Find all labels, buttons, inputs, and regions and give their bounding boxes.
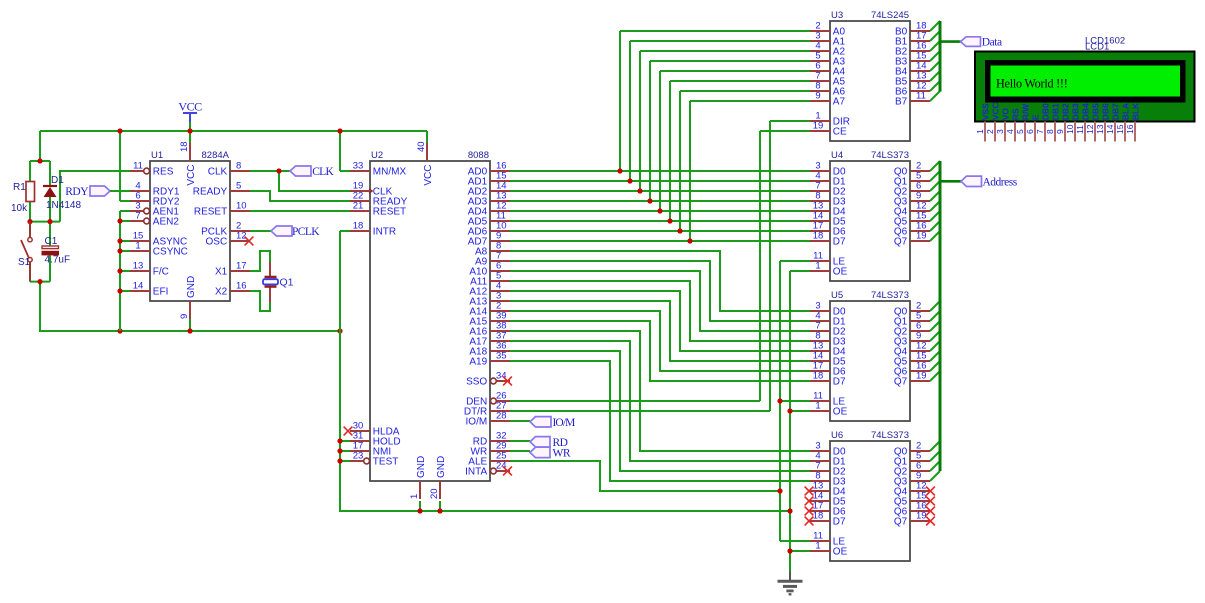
svg-text:8: 8: [1045, 129, 1055, 134]
terminal label WR: [530, 447, 571, 459]
wire MN/MX to VCC rail: [340, 170, 350, 172]
svg-text:34: 34: [496, 371, 507, 382]
svg-text:10k: 10k: [11, 203, 28, 214]
svg-text:4: 4: [1005, 129, 1015, 134]
svg-text:VCC: VCC: [186, 165, 197, 186]
svg-text:OSC: OSC: [206, 237, 228, 248]
svg-text:14: 14: [1105, 124, 1115, 134]
U2 pin 38 A16: [469, 321, 510, 338]
svg-text:A7: A7: [833, 97, 846, 108]
junction chain at AEN2: [117, 218, 122, 223]
U1 pin 14 EFI: [130, 281, 168, 298]
no-connect X on U6 D5: [805, 497, 814, 506]
svg-text:DB3: DB3: [1070, 103, 1080, 120]
svg-text:CE: CE: [833, 127, 847, 138]
svg-text:RESET: RESET: [194, 207, 227, 218]
svg-text:GND: GND: [436, 456, 447, 478]
svg-text:D7: D7: [833, 517, 846, 528]
net CLK wire (U1 CLK to label and U2 CLK): [250, 171, 350, 191]
U1 pin 9 GND: [179, 276, 197, 319]
svg-text:Hello World !!!: Hello World !!!: [996, 77, 1068, 91]
svg-text:1: 1: [135, 241, 140, 252]
net A18 wire (U2 to U6 D2): [510, 351, 810, 471]
IC U4 74LS373 body: [830, 150, 910, 281]
svg-text:13: 13: [133, 261, 144, 272]
junction OE chain at U5 OE: [787, 408, 792, 413]
U2 pin 14 AD2: [468, 181, 510, 198]
U6 pin 12 Q4: [894, 481, 930, 498]
U2 pin 8 A8: [475, 241, 510, 258]
svg-text:DB7: DB7: [1110, 103, 1120, 120]
LCD1 pin 6 E: [1025, 114, 1040, 141]
svg-text:20: 20: [429, 488, 440, 499]
U2 pin 18 INTR: [350, 221, 396, 238]
junction AD2: [637, 188, 642, 193]
svg-text:U1: U1: [151, 150, 163, 161]
svg-text:BLA: BLA: [1120, 103, 1130, 120]
svg-text:CSYNC: CSYNC: [153, 247, 188, 258]
svg-text:19: 19: [916, 231, 927, 242]
svg-text:A19: A19: [469, 357, 487, 368]
U2 pin 33 MN/MX: [350, 161, 406, 178]
svg-text:19: 19: [916, 371, 927, 382]
U6 pin 13 D4: [810, 481, 846, 498]
junction AD6: [677, 228, 682, 233]
U3 pin 13 B5: [895, 71, 930, 88]
net PCLK wire: [250, 230, 271, 232]
U6 pin 2 Q0: [894, 441, 930, 458]
LCD1 pin 10 DB3: [1065, 103, 1080, 141]
net ALE wire to latch LE chain: [510, 261, 810, 541]
no-connect X on U6 Q6: [926, 507, 935, 516]
svg-text:CLK: CLK: [312, 166, 334, 178]
svg-text:23: 23: [353, 451, 364, 462]
U5 pin 15 Q5: [894, 351, 930, 368]
U2 pin 35 A19: [469, 351, 510, 368]
svg-text:VO: VO: [1000, 108, 1010, 121]
svg-text:F/C: F/C: [153, 267, 169, 278]
terminal label PCLK: [271, 226, 320, 238]
no-connect X on U6 D4: [805, 487, 814, 496]
net WR wire: [510, 450, 530, 452]
U4 pin 5 Q1: [894, 171, 930, 188]
bus Data (U3 B outputs): [930, 21, 961, 101]
U1 pin 10 RESET: [194, 201, 250, 218]
net AD0 wire (U2 to U3/U4): [510, 31, 810, 171]
IC U3 74LS245 body: [830, 10, 910, 141]
svg-text:11: 11: [1075, 125, 1085, 134]
U4 pin 9 Q3: [894, 191, 930, 208]
svg-text:74LS373: 74LS373: [871, 290, 909, 301]
svg-text:9: 9: [179, 314, 190, 319]
junction VCC rail at U1 VCC: [187, 128, 192, 133]
svg-text:PCLK: PCLK: [292, 226, 320, 238]
no-connect X on U6 D7: [805, 517, 814, 526]
U3 pin 19 CE: [810, 121, 847, 138]
LCD1 pin 16 BLK: [1125, 102, 1140, 142]
U5 pin 18 D7: [810, 371, 846, 388]
U4 pin 1 OE: [810, 261, 848, 278]
junction RES at D1 bottom: [47, 219, 52, 224]
junction AD3: [647, 198, 652, 203]
svg-text:RES: RES: [153, 167, 174, 178]
no-connect X on U6 Q7: [926, 517, 935, 526]
U6 pin 3 D0: [810, 441, 846, 458]
U1 pin 16 X2: [215, 281, 250, 298]
U2 pin 21 RESET: [350, 201, 406, 218]
junction chain at NMI: [337, 448, 342, 453]
svg-text:Address: Address: [983, 177, 1018, 189]
junction R1/D1 top: [37, 158, 42, 163]
svg-text:4.7uF: 4.7uF: [45, 255, 71, 266]
svg-text:U5: U5: [831, 290, 843, 301]
svg-text:7: 7: [135, 211, 140, 222]
junction AD7: [687, 238, 692, 243]
U5 pin 19 Q7: [894, 371, 930, 388]
junction chain at CSYNC: [117, 248, 122, 253]
resistor R1: [11, 182, 35, 215]
svg-text:74LS373: 74LS373: [871, 430, 909, 441]
svg-text:19: 19: [916, 511, 927, 522]
U3 pin 6 A4: [810, 61, 845, 78]
svg-text:INTA: INTA: [465, 467, 487, 478]
svg-text:AEN2: AEN2: [153, 217, 180, 228]
U1 pin 5 READY: [193, 181, 250, 198]
U1 pin 4 RDY1: [130, 181, 180, 198]
svg-text:17: 17: [236, 261, 247, 272]
U5 pin 13 D4: [810, 341, 846, 358]
svg-text:GND: GND: [416, 456, 427, 478]
LCD1 pin 8 DB1: [1045, 103, 1060, 141]
svg-text:GND: GND: [186, 276, 197, 298]
svg-text:IO/M: IO/M: [466, 417, 488, 428]
U6 pin 18 D7: [810, 511, 846, 528]
svg-text:74LS245: 74LS245: [871, 10, 909, 21]
U3 pin 5 A3: [810, 51, 845, 68]
svg-text:8284A: 8284A: [202, 150, 230, 161]
LCD1 pin 14 DB7: [1105, 103, 1120, 141]
svg-text:EFI: EFI: [153, 287, 169, 298]
wire AEN1/AEN2/ASYNC/CSYNC/F-C/EFI chain: [120, 211, 130, 331]
U3 pin 18 B0: [895, 21, 930, 38]
svg-text:11: 11: [916, 91, 926, 102]
LCD1 pin 2 VCC: [985, 102, 1000, 141]
U3 pin 11 B7: [895, 91, 930, 108]
svg-text:OE: OE: [833, 547, 848, 558]
svg-text:X2: X2: [215, 287, 228, 298]
terminal label IO/M: [530, 417, 575, 429]
U5 pin 17 D6: [810, 361, 846, 378]
svg-text:READY: READY: [193, 187, 228, 198]
svg-text:R/W: R/W: [1020, 103, 1030, 121]
U2 pin 37 A17: [469, 331, 510, 348]
U5 pin 14 D5: [810, 351, 846, 368]
no-connect X on U2 HLDA: [344, 427, 353, 436]
U1 pin 11 RES: [130, 161, 174, 178]
U5 pin 12 Q4: [894, 341, 930, 358]
svg-text:40: 40: [416, 141, 427, 152]
net OE chain wire to ground: [790, 271, 810, 572]
svg-text:S1: S1: [18, 257, 31, 268]
svg-text:OE: OE: [833, 407, 848, 418]
U3 pin 15 B3: [895, 51, 930, 68]
svg-text:9: 9: [815, 91, 820, 102]
crystal Q1: [263, 277, 294, 289]
svg-text:Q7: Q7: [894, 237, 908, 248]
U1 pin 3 AEN1: [130, 201, 179, 218]
svg-text:DB4: DB4: [1080, 103, 1090, 120]
junction AD0: [617, 168, 622, 173]
U5 pin 16 Q6: [894, 361, 930, 378]
U1 pin 17 X1: [215, 261, 250, 278]
U5 pin 3 D0: [810, 301, 846, 318]
U3 pin 12 B6: [895, 81, 930, 98]
U4 pin 3 D0: [810, 161, 846, 178]
svg-text:U6: U6: [831, 430, 843, 441]
junction RES at R1 bottom: [27, 219, 32, 224]
capacitor C1 4.7uF: [42, 236, 70, 266]
U2 pin 13 AD3: [468, 191, 510, 208]
U2 pin 36 A18: [469, 341, 510, 358]
svg-text:1N4148: 1N4148: [46, 200, 81, 211]
net AD2 wire (U2 to U3/U4): [510, 51, 810, 191]
U3 pin 8 A6: [810, 81, 845, 98]
svg-text:33: 33: [353, 161, 364, 172]
svg-text:18: 18: [353, 221, 364, 232]
U6 pin 6 Q2: [894, 461, 930, 478]
U2 pin 24 INTA: [465, 461, 510, 478]
junction GND rail at U1 GND: [187, 328, 192, 333]
IC U6 74LS373 body: [830, 430, 910, 561]
U4 pin 12 Q4: [894, 201, 930, 218]
U1 pin 12 OSC: [206, 231, 250, 248]
svg-text:Q1: Q1: [280, 277, 294, 289]
junction chain at TEST: [337, 458, 342, 463]
svg-text:U2: U2: [371, 150, 383, 161]
U2 pin 22 READY: [350, 191, 408, 208]
junction VCC rail at MN/MX riser: [337, 128, 342, 133]
svg-text:6: 6: [1025, 129, 1035, 134]
U6 pin 17 D6: [810, 501, 846, 518]
svg-text:D7: D7: [833, 377, 846, 388]
U5 pin 7 D2: [810, 321, 846, 338]
U5 pin 4 D1: [810, 311, 846, 328]
net AD5 wire (U2 to U3/U4): [510, 81, 810, 221]
U2 pin 16 AD0: [468, 161, 510, 178]
svg-text:Data: Data: [982, 37, 1002, 49]
terminal label RDY: [65, 186, 110, 198]
LCD1 pin 1 VSS: [975, 103, 990, 142]
U2 pin 19 CLK: [350, 181, 393, 198]
U3 pin 16 B2: [895, 41, 930, 58]
net AD3 wire (U2 to U3/U4): [510, 61, 810, 201]
U1 pin 18 VCC: [179, 141, 197, 185]
U2 pin 29 WR: [471, 441, 510, 458]
no-connect X on U6 Q4: [926, 487, 935, 496]
svg-text:DB5: DB5: [1090, 103, 1100, 120]
svg-text:MN/MX: MN/MX: [373, 167, 407, 178]
net A16 wire (U2 to U6 D0): [510, 331, 810, 451]
LCD1 pin 4 RS: [1005, 108, 1020, 141]
U2 pin 9 AD7: [468, 231, 510, 248]
U2 pin 30 HLDA: [350, 421, 400, 438]
U5 pin 11 LE: [810, 391, 845, 408]
svg-text:RDY: RDY: [65, 186, 89, 198]
power symbol VCC: [178, 100, 202, 123]
svg-text:21: 21: [353, 201, 364, 212]
U3 pin 14 B4: [895, 61, 930, 78]
U2 pin 12 AD4: [468, 201, 510, 218]
junction CLK: [276, 168, 281, 173]
LCD1 LCD1602 module: [975, 36, 1195, 122]
svg-text:OE: OE: [833, 267, 848, 278]
U2 pin 20 GND: [429, 456, 447, 499]
terminal label Address: [961, 176, 1018, 188]
U5 pin 5 Q1: [894, 311, 930, 328]
U1 pin 13 F/C: [130, 261, 169, 278]
svg-text:DB0: DB0: [1040, 103, 1050, 120]
svg-text:B7: B7: [895, 97, 908, 108]
net A19 wire (U2 to U6 D3): [510, 361, 810, 481]
svg-text:18: 18: [813, 511, 824, 522]
junction chain at HOLD: [337, 438, 342, 443]
U4 pin 11 LE: [810, 251, 845, 268]
junction OE chain at GND rail: [787, 508, 792, 513]
net A13 wire (U2 to U5 D5): [510, 301, 810, 361]
junction chain at ASYNC: [117, 238, 122, 243]
net X1 wire to crystal: [250, 251, 270, 276]
svg-text:5: 5: [236, 181, 241, 192]
junction LE chain at U5 LE: [777, 398, 782, 403]
svg-text:1: 1: [975, 129, 985, 134]
LCD1 pin 5 R/W: [1015, 103, 1030, 142]
junction OE chain at U6 OE: [787, 548, 792, 553]
junction GND rail at U2 GND1: [417, 508, 422, 513]
net AD1 wire (U2 to U3/U4): [510, 41, 810, 181]
LCD1 pin 15 BLA: [1115, 103, 1130, 142]
net A12 wire (U2 to U5 D4): [510, 291, 810, 351]
svg-text:Q7: Q7: [894, 517, 908, 528]
svg-text:R1: R1: [13, 182, 26, 193]
svg-text:D7: D7: [833, 237, 846, 248]
svg-text:12: 12: [236, 231, 247, 242]
U1 pin 7 AEN2: [130, 211, 179, 228]
svg-text:SSO: SSO: [466, 377, 487, 388]
net A9 wire (U2 to U5 D1): [510, 261, 810, 321]
junction AD5: [667, 218, 672, 223]
junction chain at EFI: [117, 288, 122, 293]
U3 pin 17 B1: [895, 31, 930, 48]
svg-text:U4: U4: [831, 150, 843, 161]
wire R1/D1 tops to VCC rail: [30, 161, 50, 186]
ground symbol: [778, 572, 803, 595]
U5 pin 9 Q3: [894, 331, 930, 348]
U6 pin 7 D2: [810, 461, 846, 478]
svg-text:RS: RS: [1010, 108, 1020, 120]
svg-text:18: 18: [813, 371, 824, 382]
U4 pin 16 Q6: [894, 221, 930, 238]
junction GND rail at INTR riser: [337, 328, 342, 333]
U2 pin 32 RD: [473, 431, 510, 448]
LCD1 pin 13 DB6: [1095, 103, 1110, 141]
U2 pin 17 NMI: [350, 441, 391, 458]
svg-text:35: 35: [496, 351, 507, 362]
net VCC top rail wire: [40, 122, 427, 201]
U2 pin 31 HOLD: [350, 431, 401, 448]
U1 pin 6 RDY2: [130, 191, 180, 208]
svg-text:X1: X1: [215, 267, 228, 278]
U2 pin 39 A15: [469, 311, 510, 328]
terminal label RD: [530, 437, 568, 449]
U2 pin 34 SSO: [466, 371, 510, 388]
junction VCC rail at RDY2 riser: [117, 128, 122, 133]
svg-text:16: 16: [1125, 124, 1135, 134]
svg-text:BLK: BLK: [1130, 102, 1140, 120]
U3 pin 1 DIR: [810, 111, 850, 128]
U3 pin 3 A1: [810, 31, 845, 48]
svg-text:18: 18: [813, 231, 824, 242]
svg-text:DB6: DB6: [1100, 103, 1110, 120]
svg-text:DB1: DB1: [1050, 103, 1060, 120]
wire RDY2 to VCC riser: [120, 200, 130, 202]
svg-text:13: 13: [1095, 124, 1105, 134]
svg-text:12: 12: [1085, 124, 1095, 134]
LCD1 pin 9 DB2: [1055, 103, 1070, 141]
svg-text:1: 1: [815, 541, 820, 552]
U4 pin 7 D2: [810, 181, 846, 198]
U2 pin 2 A14: [469, 301, 510, 318]
svg-text:11: 11: [133, 161, 143, 172]
net RD wire: [510, 440, 530, 442]
svg-text:RESET: RESET: [373, 207, 406, 218]
svg-text:1: 1: [815, 261, 820, 272]
U4 pin 17 D6: [810, 221, 846, 238]
svg-text:INTR: INTR: [373, 227, 396, 238]
U6 pin 8 D3: [810, 471, 846, 488]
terminal label CLK: [290, 166, 334, 178]
junction GND rail at AEN chain: [117, 328, 122, 333]
U2 pin 28 IO/M: [466, 411, 510, 428]
bus Address (U4/U5/U6 Q outputs): [930, 161, 961, 481]
svg-text:E: E: [1030, 114, 1040, 120]
svg-text:TEST: TEST: [373, 457, 399, 468]
U2 pin 10 AD6: [468, 221, 510, 238]
net AD6 wire (U2 to U3/U4): [510, 91, 810, 231]
wire INTR/HOLD/NMI/TEST chain to GND rail: [340, 231, 790, 511]
svg-text:1: 1: [815, 401, 820, 412]
svg-text:8088: 8088: [468, 150, 489, 161]
U1 pin 2 PCLK: [201, 221, 250, 238]
U3 pin 2 A0: [810, 21, 845, 38]
U4 pin 6 Q2: [894, 181, 930, 198]
IC U2 8088 body: [370, 150, 490, 481]
svg-text:8: 8: [236, 161, 241, 172]
no-connect X on OSC: [245, 237, 254, 246]
junction LE chain at ALE: [777, 488, 782, 493]
U2 pin 3 A13: [469, 291, 510, 308]
U3 pin 7 A5: [810, 71, 845, 88]
terminal label Data: [961, 37, 1003, 49]
junction AD4: [657, 208, 662, 213]
U6 pin 1 OE: [810, 541, 848, 558]
U4 pin 14 D5: [810, 211, 846, 228]
svg-text:1: 1: [409, 494, 420, 499]
net A14 wire (U2 to U5 D6): [510, 311, 810, 371]
net READY wire U1-U2: [250, 191, 350, 201]
U2 pin 1 GND: [409, 456, 427, 499]
net A11 wire (U2 to U5 D3): [510, 281, 810, 341]
svg-text:DB2: DB2: [1060, 103, 1070, 120]
